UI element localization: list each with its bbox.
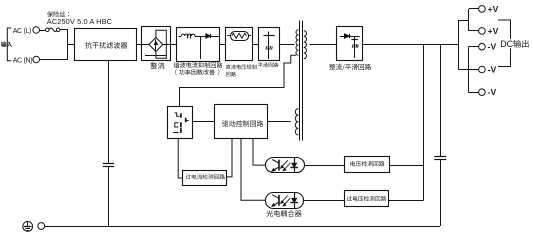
- wire overcurrent-drive: [227, 139, 233, 177]
- bridge rectifier block 整流: [142, 27, 171, 61]
- voltage detection block 电压检测回路: [345, 157, 390, 173]
- output rectifier/smoothing block: [337, 27, 363, 61]
- transformer primary winding: [296, 30, 298, 56]
- label 输入: [1, 42, 12, 48]
- terminal +V 1: [479, 4, 499, 14]
- label （功率因数改善）: [175, 69, 219, 75]
- terminal -V 3: [479, 87, 497, 97]
- fuse rating label: [47, 11, 113, 26]
- svg-text:+V: +V: [488, 26, 499, 36]
- primary return wire to switcher: [180, 55, 297, 106]
- svg-text:AC250V 5.0 A HBC: AC250V 5.0 A HBC: [47, 17, 113, 26]
- DC voltage regulation block: [226, 28, 253, 61]
- svg-text:AC (N): AC (N): [13, 57, 33, 64]
- fuse F1: [40, 28, 68, 32]
- PFC block: [177, 28, 220, 62]
- label 直流电压规制 回路: [226, 65, 257, 77]
- wire switcher to overcurrent block: [178, 139, 183, 179]
- photocoupler 1: [266, 157, 305, 173]
- wire overvoltage detect to sense line: [389, 200, 424, 202]
- wire switcher-drive: [193, 121, 215, 123]
- output terminal wires: [468, 9, 478, 93]
- wire drive to photocoupler 1: [253, 139, 266, 166]
- EMI filter block 抗干扰滤波器: [75, 29, 137, 61]
- terminal +V 2: [479, 26, 499, 36]
- transformer T1 core: [300, 21, 303, 141]
- output capacitor line: [434, 45, 446, 227]
- wire coupler1 to voltage detect: [304, 165, 344, 167]
- transformer auxiliary winding: [295, 109, 298, 135]
- photocoupler 2: [266, 193, 304, 209]
- wire voltage detect to sense line: [390, 165, 424, 167]
- label 光电耦合器: [266, 210, 301, 217]
- protective earth symbol: [23, 222, 33, 232]
- label 整流: [151, 62, 165, 69]
- svg-text:-V: -V: [488, 42, 497, 52]
- label 平滑回路: [258, 63, 278, 68]
- terminal -V 1: [479, 42, 497, 52]
- Y-capacitor drop from filter: [103, 61, 114, 226]
- wire junction to filter: [68, 44, 75, 46]
- svg-text:AC (L): AC (L): [13, 28, 31, 35]
- output bus bars: [458, 9, 469, 92]
- wire drive to photocoupler 2: [241, 139, 266, 201]
- wire filter-rectifier: [136, 44, 142, 46]
- terminal AC(N): [13, 56, 40, 64]
- switching transistor block: [168, 107, 193, 139]
- label DC输出: [499, 39, 532, 49]
- smoothing block 平滑回路: [259, 28, 280, 61]
- wire rectifier-PFC: [170, 44, 177, 46]
- wire smoothing-transformer: [279, 44, 294, 46]
- svg-text:-V: -V: [488, 87, 497, 97]
- wire regulator-smoothing: [252, 44, 259, 46]
- wire coupler2 to overvoltage detect: [303, 200, 344, 202]
- bottom return rail: [45, 226, 440, 228]
- overcurrent detection block 过电流检测回路: [183, 171, 227, 186]
- input bracket: [7, 28, 11, 61]
- sense line: [423, 45, 425, 201]
- secondary wire: [310, 44, 337, 46]
- wire L-junction vertical: [67, 30, 69, 60]
- DC output bracket: [498, 20, 511, 67]
- drive control block 驱动控制回路: [215, 105, 268, 139]
- main + output wire: [363, 44, 459, 46]
- label 整流/平滑回路: [329, 64, 371, 71]
- terminal -V 2: [479, 65, 497, 75]
- svg-text:DC: DC: [500, 39, 513, 49]
- svg-text:+V: +V: [488, 4, 499, 14]
- bottom ground terminal: [38, 223, 45, 230]
- transformer secondary winding: [304, 31, 307, 59]
- wire N: [40, 59, 68, 61]
- label 谐波电流抑制回路: [174, 62, 223, 68]
- terminal AC(L): [13, 27, 40, 35]
- wire PFC-regulator: [220, 44, 226, 46]
- wire drive-aux winding: [268, 121, 291, 123]
- svg-text:-V: -V: [488, 65, 497, 75]
- overvoltage detection block 过电压检测回路: [345, 191, 389, 207]
